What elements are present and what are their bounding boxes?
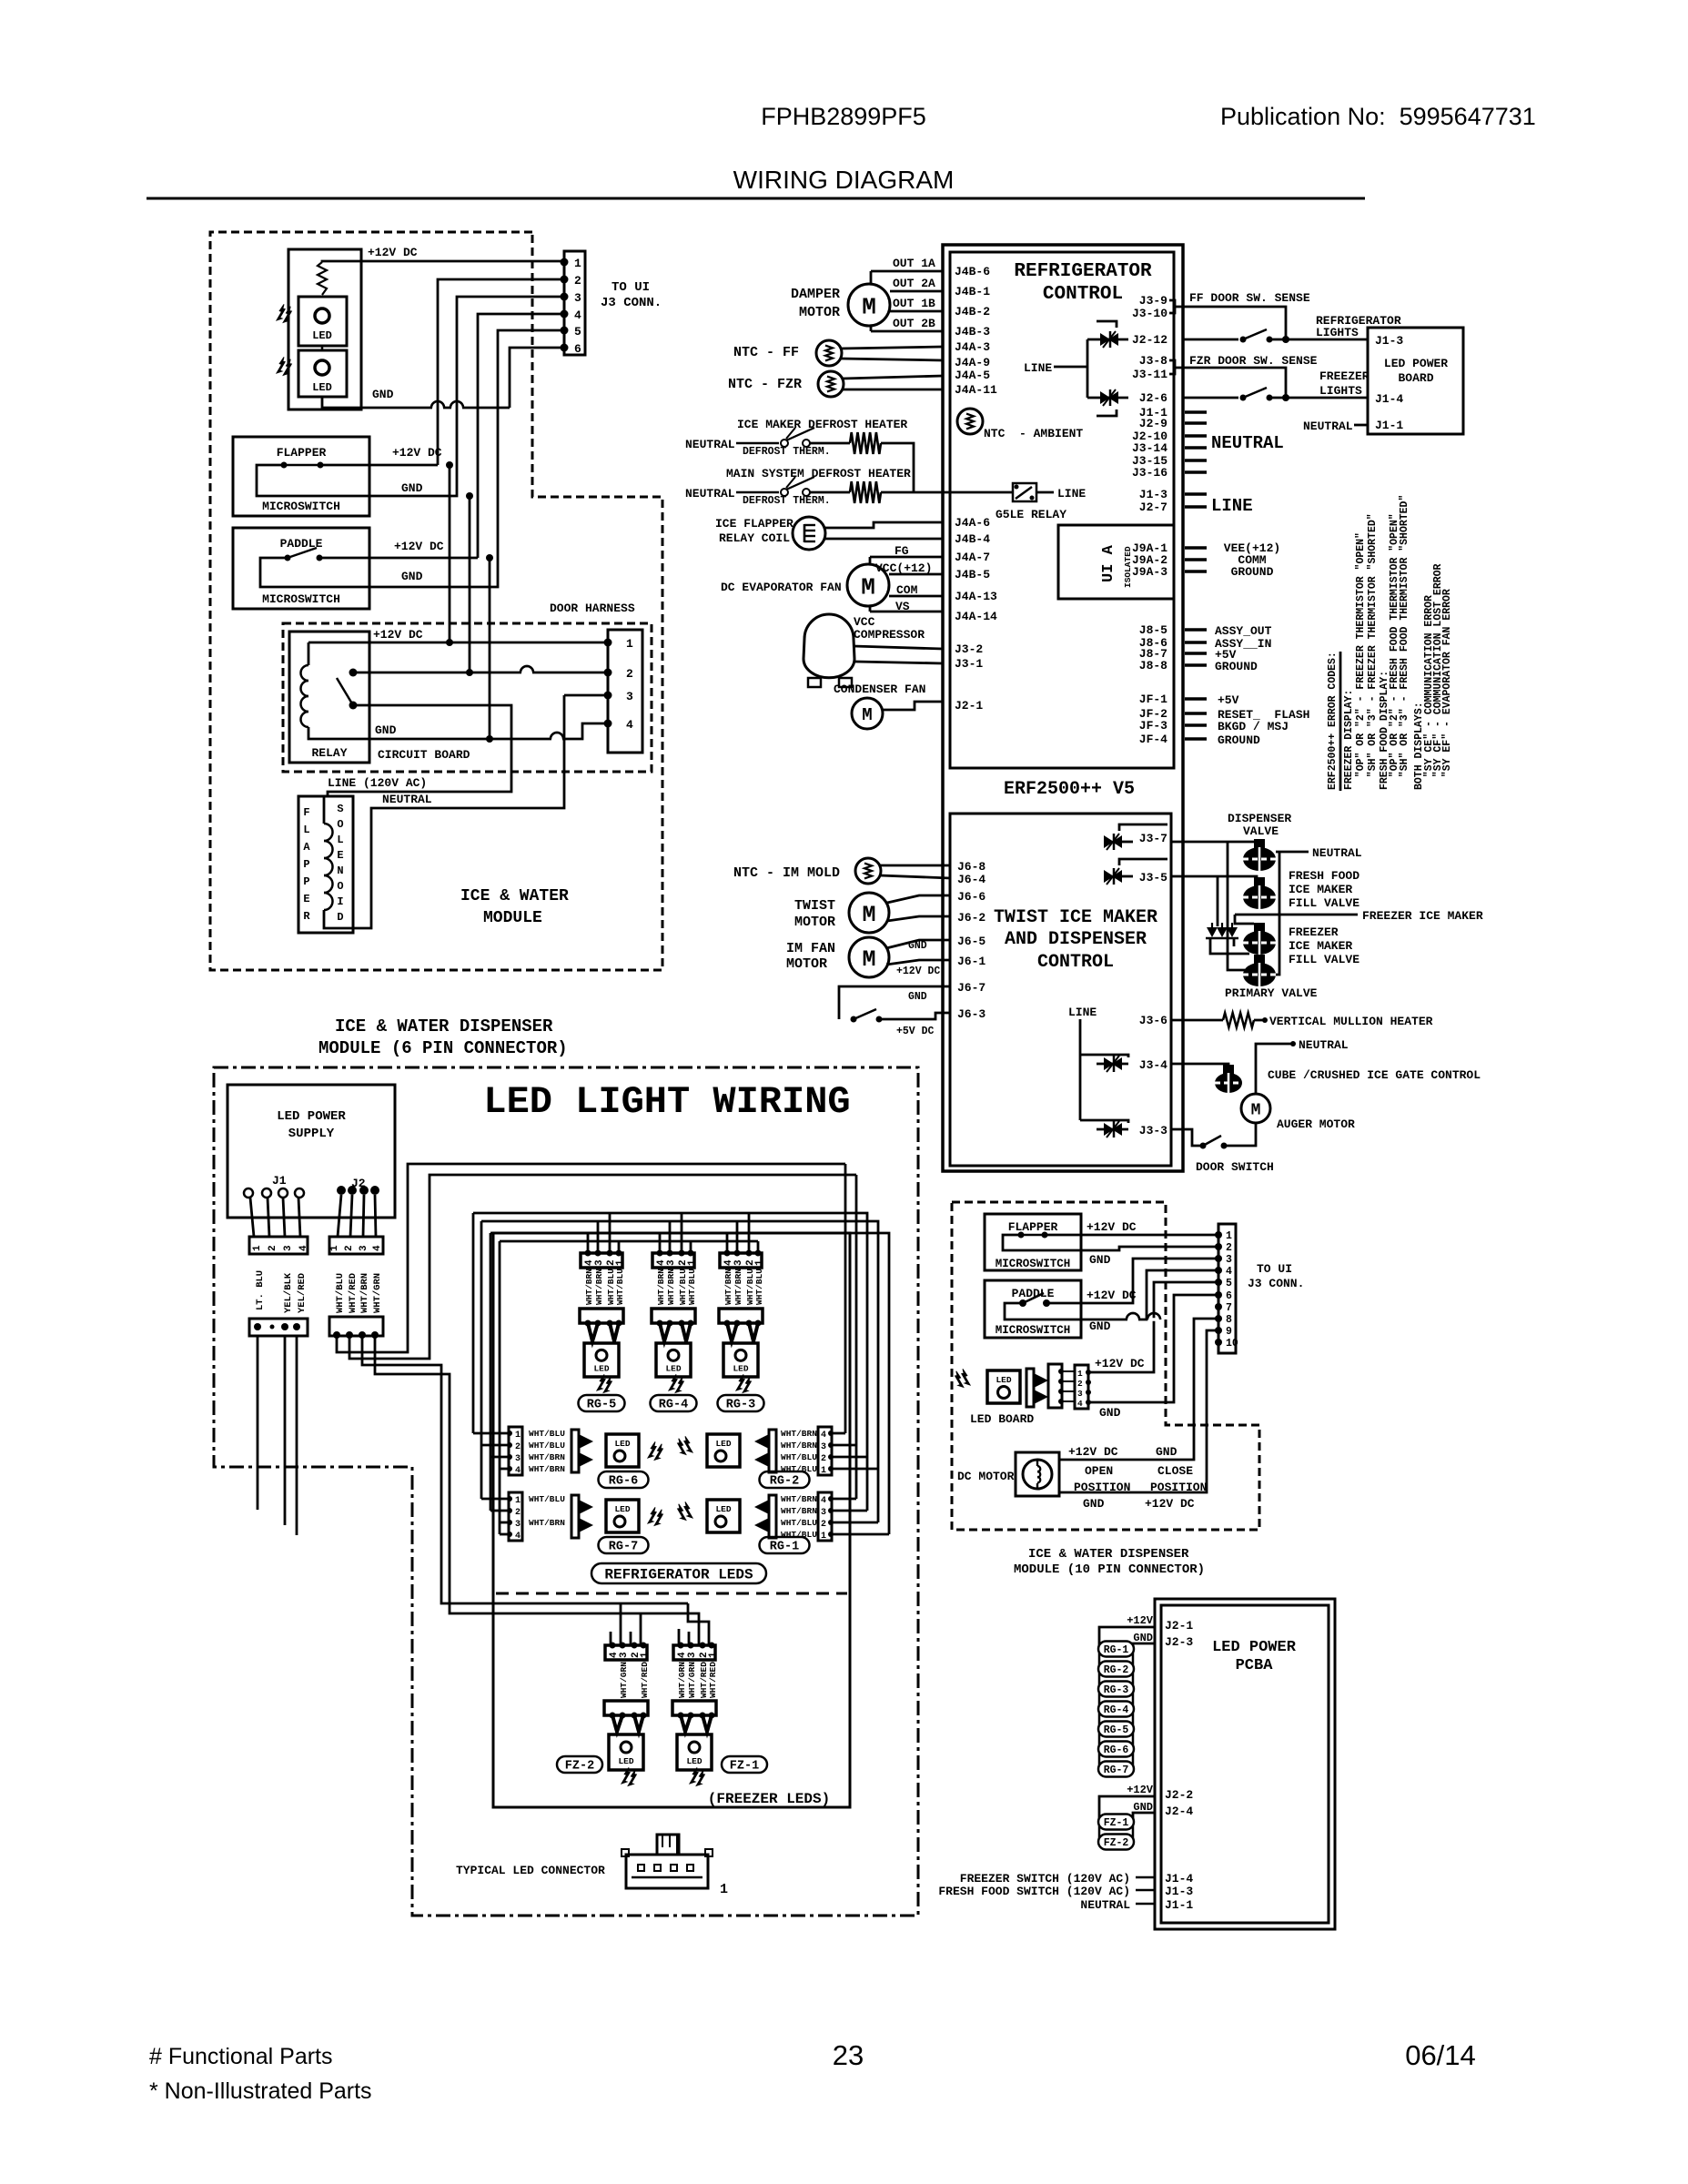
wire led board +12V to pin5: [1088, 1282, 1218, 1372]
stub wire J3-15: [1185, 459, 1207, 462]
svg-text:J3-6: J3-6: [1139, 1014, 1167, 1027]
svg-text:10: 10: [1226, 1338, 1238, 1350]
LED2 light rays: [277, 357, 285, 373]
stub wire JF-3: [1185, 723, 1207, 727]
riser wires RG-3: [726, 1233, 729, 1253]
LED connector lower FZ-2: [604, 1701, 648, 1715]
svg-text:1: 1: [754, 1259, 765, 1266]
svg-text:WHT/BRN: WHT/BRN: [656, 1269, 666, 1305]
svg-text:ERF2500++ V5: ERF2500++ V5: [1004, 779, 1135, 800]
svg-text:NEUTRAL: NEUTRAL: [382, 793, 432, 806]
svg-text:LED: LED: [715, 1439, 731, 1449]
svg-text:J6-2: J6-2: [957, 911, 986, 925]
svg-text:J4A-5: J4A-5: [955, 369, 990, 382]
svg-text:3: 3: [666, 1259, 677, 1266]
svg-text:FLAPPER: FLAPPER: [1008, 1220, 1058, 1234]
led bus wire A: [473, 1213, 867, 1511]
10pin pin 5: [1215, 1279, 1222, 1286]
svg-text:PCBA: PCBA: [1236, 1657, 1274, 1674]
svg-text:J2-7: J2-7: [1139, 500, 1167, 514]
diodes: [1207, 927, 1218, 937]
svg-text:IM FAN: IM FAN: [786, 941, 835, 956]
stub wire JF-4: [1185, 737, 1207, 741]
wire solenoid top to line: [324, 795, 328, 798]
defrost heater 2: [850, 481, 881, 503]
svg-text:MOTOR: MOTOR: [786, 956, 827, 972]
wire heater to label: [1254, 1019, 1265, 1022]
wire J3-7 with triac: [1121, 841, 1133, 844]
stack oval RG-2: [1098, 1662, 1134, 1677]
stack oval RG-6: [1098, 1742, 1134, 1757]
NTC ambient thermistor: [957, 409, 983, 434]
svg-text:WHT/BRN: WHT/BRN: [781, 1494, 817, 1504]
svg-text:MODULE (6 PIN CONNECTOR): MODULE (6 PIN CONNECTOR): [318, 1038, 568, 1058]
light rays FZ-2: [622, 1767, 630, 1784]
svg-text:VCC(+12): VCC(+12): [875, 561, 932, 575]
svg-text:GROUND: GROUND: [1215, 660, 1258, 673]
wire +12V to harness pin1: [308, 642, 608, 644]
wire dc motor close: [1059, 1330, 1218, 1492]
svg-text:NEUTRAL: NEUTRAL: [1080, 1898, 1130, 1912]
svg-text:WHT/RED: WHT/RED: [348, 1273, 359, 1313]
svg-text:GND: GND: [401, 481, 423, 495]
svg-text:J4A-7: J4A-7: [955, 551, 990, 564]
svg-text:WHT/BRN: WHT/BRN: [529, 1518, 565, 1528]
J1 lower connector box: [249, 1319, 308, 1336]
hanging wire YEL/BLK: [284, 1336, 287, 1525]
pin strip RG-7: [509, 1492, 522, 1541]
LED module RG-4: [656, 1343, 691, 1377]
svg-text:RELAY COIL: RELAY COIL: [719, 531, 790, 545]
svg-text:J6-6: J6-6: [957, 890, 986, 904]
contact triangles RG-5: [588, 1323, 598, 1341]
triac refrigerator lights: [1087, 339, 1128, 341]
wire J3-4 with triac: [1080, 1055, 1128, 1057]
wire GND LED board to pin6: [322, 397, 510, 408]
svg-text:+12V DC: +12V DC: [1095, 1357, 1145, 1370]
svg-text:7: 7: [1226, 1302, 1232, 1314]
svg-text:RG-3: RG-3: [726, 1399, 755, 1412]
svg-text:+12V DC: +12V DC: [1087, 1289, 1137, 1302]
svg-text:+5V: +5V: [1218, 693, 1239, 707]
pin 5 of J3 connector: [561, 327, 569, 335]
light rays FZ-1: [690, 1767, 698, 1784]
svg-text:06/14: 06/14: [1405, 2039, 1476, 2071]
designator oval RG-3: [718, 1395, 764, 1411]
svg-text:"SY EF" - EVAPORATOR FAN ERROR: "SY EF" - EVAPORATOR FAN ERROR: [1441, 589, 1453, 790]
svg-text:2: 2: [821, 1454, 826, 1464]
svg-text:WHT/GRN: WHT/GRN: [687, 1662, 697, 1698]
svg-text:2: 2: [344, 1245, 355, 1251]
door harness connector (4 pin): [608, 630, 642, 753]
svg-text:1: 1: [1077, 1369, 1083, 1379]
J2 connector box: [329, 1237, 383, 1254]
svg-text:DOOR SWITCH: DOOR SWITCH: [1196, 1160, 1274, 1174]
wire condenser fan: [883, 702, 943, 710]
10pin pin 8: [1215, 1315, 1222, 1322]
svg-text:LINE: LINE: [1211, 496, 1253, 516]
svg-text:GND: GND: [1156, 1445, 1178, 1459]
svg-text:M: M: [862, 946, 875, 973]
svg-text:NTC - IM MOLD: NTC - IM MOLD: [733, 865, 840, 881]
svg-text:M: M: [862, 902, 875, 928]
wire valve neutral bus: [1276, 851, 1309, 854]
auger motor M6: [1241, 1094, 1270, 1123]
freezer light switch: [1240, 395, 1247, 401]
LED board light rays: [962, 1369, 970, 1385]
svg-text:OUT 1A: OUT 1A: [893, 257, 935, 270]
defrost thermostat 2: [781, 489, 788, 496]
svg-text:J2-6: J2-6: [1139, 391, 1167, 405]
diode bus vertical: [1217, 876, 1219, 926]
svg-text:WHT/GRN: WHT/GRN: [372, 1273, 383, 1313]
J1 pigtail wires: [250, 1198, 254, 1237]
svg-text:OUT 1B: OUT 1B: [893, 297, 935, 310]
svg-text:2: 2: [821, 1520, 826, 1530]
pin 3 of J3 connector: [561, 293, 569, 301]
riser wires RG-5: [587, 1233, 590, 1253]
svg-text:TO UI: TO UI: [612, 280, 650, 295]
svg-text:NEUTRAL: NEUTRAL: [1211, 433, 1284, 453]
svg-text:J4A-13: J4A-13: [955, 590, 997, 603]
wire LINE to selector: [1054, 366, 1087, 369]
svg-text:J4B-1: J4B-1: [955, 285, 990, 298]
svg-text:J3-14: J3-14: [1132, 441, 1167, 455]
svg-text:VALVE: VALVE: [1243, 824, 1279, 838]
J1 pin circles: [244, 1188, 253, 1198]
svg-text:J4B-2: J4B-2: [955, 305, 990, 318]
svg-text:2: 2: [626, 667, 633, 681]
svg-text:RELAY: RELAY: [311, 746, 347, 760]
stack oval FZ-1: [1098, 1815, 1134, 1830]
compressor body: [804, 614, 854, 678]
svg-text:FREEZER: FREEZER: [1319, 369, 1370, 383]
svg-text:YEL/RED: YEL/RED: [297, 1273, 308, 1313]
svg-text:LINE: LINE: [1057, 487, 1086, 500]
light rays RG-7: [648, 1507, 656, 1523]
LED module RG-1: [707, 1500, 740, 1532]
svg-text:+12V DC: +12V DC: [368, 246, 418, 259]
svg-text:6: 6: [574, 342, 581, 356]
pin 4 of J3 connector: [561, 310, 569, 318]
svg-text:9: 9: [1226, 1326, 1232, 1338]
svg-text:J6-3: J6-3: [957, 1007, 986, 1021]
dashed enclosure ice & water dispenser module 10-pin: [952, 1202, 1259, 1530]
svg-text:LED POWER: LED POWER: [1384, 357, 1448, 370]
stack oval RG-4: [1098, 1702, 1134, 1717]
paddle internal GND loop wire: [260, 558, 369, 587]
svg-text:WHT/BRN: WHT/BRN: [529, 1452, 565, 1462]
svg-text:RG-2: RG-2: [770, 1475, 799, 1489]
svg-text:LED: LED: [614, 1504, 630, 1514]
stub wire J9A-1: [1185, 546, 1207, 550]
svg-text:WHT/RED: WHT/RED: [708, 1662, 718, 1698]
RG-1 pin stub wires: [832, 1498, 856, 1501]
svg-text:WHT/BRN: WHT/BRN: [781, 1429, 817, 1439]
10pin pin 6: [1215, 1291, 1222, 1299]
freezer fill valve V3: [1254, 923, 1265, 932]
designator oval FZ-2: [557, 1756, 602, 1773]
svg-text:WHT/RED: WHT/RED: [640, 1662, 650, 1698]
relay coil leads: [308, 642, 310, 665]
wire switch to J6-3: [879, 1013, 950, 1019]
svg-text:TO UI: TO UI: [1257, 1262, 1292, 1276]
twist ice maker control box: [950, 814, 1171, 1166]
svg-text:LED LIGHT WIRING: LED LIGHT WIRING: [483, 1080, 850, 1124]
svg-text:MODULE: MODULE: [483, 909, 542, 927]
wires compressor: [854, 646, 943, 649]
svg-text:WHT/BRN: WHT/BRN: [781, 1441, 817, 1451]
ice flapper relay coil symbol: [793, 517, 825, 550]
svg-text:M: M: [1251, 1101, 1261, 1119]
svg-text:+12V DC: +12V DC: [1087, 1220, 1137, 1234]
svg-text:3: 3: [821, 1442, 826, 1452]
svg-text:+12V: +12V: [1127, 1784, 1154, 1796]
wire +12V to pin1: [322, 261, 564, 262]
G5LE relay box: [1013, 483, 1036, 501]
svg-text:J3 CONN.: J3 CONN.: [601, 296, 662, 310]
svg-text:J2-4: J2-4: [1165, 1805, 1193, 1818]
svg-text:Publication No: 5995647731: Publication No: 5995647731: [1220, 103, 1536, 130]
svg-text:LINE: LINE: [1024, 361, 1052, 375]
svg-text:GND: GND: [372, 388, 394, 401]
10pin pin 2: [1215, 1243, 1222, 1250]
svg-text:FZ-1: FZ-1: [730, 1760, 759, 1774]
svg-text:2: 2: [515, 1508, 521, 1518]
svg-text:WHT/BLU: WHT/BLU: [335, 1273, 346, 1313]
dash-dot enclosure LED LIGHT WIRING: [214, 1067, 918, 1916]
svg-text:LED: LED: [593, 1363, 609, 1373]
svg-text:LINE: LINE: [1068, 1006, 1097, 1019]
svg-text:DEFROST THERM.: DEFROST THERM.: [743, 495, 831, 507]
svg-text:NTC - AMBIENT: NTC - AMBIENT: [984, 427, 1083, 440]
svg-text:MICROSWITCH: MICROSWITCH: [262, 500, 340, 513]
wire FREEZER ICE MAKER: [1235, 914, 1358, 916]
wire J3-3 with triac: [1080, 1120, 1128, 1123]
wire FZR door sense: [1175, 368, 1286, 398]
dispenser valve V1: [1254, 839, 1265, 848]
svg-text:J4B-4: J4B-4: [955, 532, 990, 546]
svg-text:A: A: [303, 841, 310, 854]
relay box: [289, 632, 369, 763]
refrigerator light switch: [1240, 337, 1247, 343]
svg-text:J4A-14: J4A-14: [955, 610, 997, 623]
im fan motor M5: [849, 937, 889, 977]
svg-text:LED: LED: [614, 1439, 630, 1449]
door harness pin 2: [604, 669, 612, 677]
svg-text:ICE & WATER: ICE & WATER: [460, 887, 569, 905]
svg-text:4: 4: [574, 308, 581, 322]
triac freezer lights: [1087, 397, 1128, 399]
svg-text:LED: LED: [618, 1756, 633, 1766]
svg-text:WHT/BRN: WHT/BRN: [359, 1273, 370, 1313]
svg-text:3: 3: [574, 291, 581, 305]
ice gate valve: [1223, 1065, 1234, 1074]
svg-text:DISPENSER: DISPENSER: [1228, 812, 1291, 825]
contact block RG-7: [571, 1495, 579, 1538]
svg-text:WHT/BLU: WHT/BLU: [529, 1429, 565, 1439]
svg-text:J3-7: J3-7: [1139, 832, 1167, 845]
svg-text:J2-3: J2-3: [1165, 1635, 1193, 1649]
svg-text:CONTROL: CONTROL: [1043, 284, 1123, 305]
svg-text:WHT/BRN: WHT/BRN: [781, 1506, 817, 1516]
svg-text:DOOR HARNESS: DOOR HARNESS: [550, 602, 635, 615]
svg-text:J4A-6: J4A-6: [955, 516, 990, 530]
door switch contacts: [1200, 1143, 1207, 1149]
riser wires RG-4: [659, 1233, 662, 1253]
svg-text:FREEZER: FREEZER: [1289, 925, 1339, 939]
led power pcba inner box: [1161, 1605, 1329, 1923]
svg-text:WHT/BLU: WHT/BLU: [781, 1464, 817, 1474]
contact triangles FZ-2: [612, 1715, 622, 1732]
wire flapper GND loop: [1003, 1235, 1218, 1250]
svg-text:J6-5: J6-5: [957, 935, 986, 948]
svg-text:RG-1: RG-1: [770, 1541, 799, 1554]
wire G5LE to LINE: [1036, 491, 1054, 494]
svg-text:+5V DC: +5V DC: [896, 1026, 935, 1037]
J2 pigtail wires: [338, 1195, 341, 1237]
wire paddle +12V: [319, 557, 478, 560]
fresh food fill valve V2: [1254, 877, 1265, 886]
svg-text:J1-3: J1-3: [1165, 1885, 1193, 1898]
dc motor box: [1016, 1452, 1059, 1496]
typical led connector drawing: [626, 1855, 708, 1888]
error codes underline: [1339, 652, 1342, 791]
svg-text:MODULE (10 PIN CONNECTOR): MODULE (10 PIN CONNECTOR): [1014, 1562, 1205, 1577]
svg-text:1: 1: [821, 1466, 826, 1476]
svg-text:BOARD: BOARD: [1398, 371, 1433, 385]
svg-text:J4A-9: J4A-9: [955, 356, 990, 369]
svg-text:L: L: [303, 824, 309, 836]
wires im fan motor: [886, 940, 950, 948]
wire rail to door harness GND: [489, 558, 491, 739]
rg stack side rails: [1098, 1649, 1101, 1769]
svg-text:J6-4: J6-4: [957, 873, 986, 886]
designator oval RG-1: [760, 1537, 810, 1553]
pin strip RG-2: [818, 1427, 832, 1475]
wire J3-5 with triac: [1121, 875, 1133, 878]
svg-text:COM: COM: [896, 583, 918, 597]
stub wire J8-7: [1185, 652, 1207, 655]
svg-text:J2-1: J2-1: [1165, 1619, 1193, 1633]
svg-text:+12V DC: +12V DC: [392, 446, 442, 460]
svg-text:DC MOTOR: DC MOTOR: [957, 1470, 1015, 1483]
svg-text:LED BOARD: LED BOARD: [970, 1412, 1034, 1426]
flapper microswitch box (10pin): [985, 1214, 1081, 1270]
svg-text:LED: LED: [996, 1375, 1011, 1385]
svg-text:MAIN SYSTEM DEFROST HEATER: MAIN SYSTEM DEFROST HEATER: [726, 467, 911, 480]
stub wire J2-10: [1185, 434, 1207, 438]
svg-text:M: M: [862, 705, 872, 725]
wire flapper +12V to pin1: [1045, 1234, 1218, 1237]
fz stack side rails: [1098, 1822, 1101, 1842]
svg-text:MICROSWITCH: MICROSWITCH: [996, 1258, 1071, 1270]
svg-text:NEUTRAL: NEUTRAL: [685, 487, 735, 500]
svg-text:AUGER MOTOR: AUGER MOTOR: [1277, 1117, 1355, 1131]
svg-text:R: R: [303, 910, 310, 923]
svg-text:NEUTRAL: NEUTRAL: [1303, 420, 1353, 433]
svg-text:1: 1: [626, 637, 633, 651]
svg-text:(FREEZER LEDS): (FREEZER LEDS): [708, 1791, 830, 1807]
stub wire J9A-3: [1185, 570, 1207, 573]
svg-text:CLOSE: CLOSE: [1157, 1464, 1193, 1478]
wire hump crossing 1: [431, 401, 444, 408]
svg-text:J2-9: J2-9: [1139, 417, 1167, 430]
svg-text:WHT/BRN: WHT/BRN: [666, 1269, 676, 1305]
svg-text:ICE & WATER DISPENSER: ICE & WATER DISPENSER: [335, 1016, 553, 1036]
svg-text:4: 4: [626, 718, 633, 732]
svg-text:WHT/BRN: WHT/BRN: [529, 1464, 565, 1474]
svg-text:+12V DC: +12V DC: [1068, 1445, 1118, 1459]
svg-text:NEUTRAL: NEUTRAL: [1299, 1038, 1349, 1052]
defrost thermostat 1: [781, 440, 788, 447]
svg-text:CIRCUIT BOARD: CIRCUIT BOARD: [378, 748, 470, 762]
svg-text:1: 1: [687, 1259, 698, 1266]
svg-text:MOTOR: MOTOR: [799, 305, 840, 320]
thermistor NTC-FZR: [818, 371, 844, 397]
paddle microswitch box: [233, 528, 369, 609]
svg-text:3: 3: [733, 1259, 744, 1266]
svg-text:J4B-6: J4B-6: [955, 265, 990, 278]
LED module RG-2: [707, 1434, 740, 1467]
wires NTC IM mold: [880, 864, 950, 867]
LED module FZ-2: [609, 1734, 643, 1770]
svg-text:1: 1: [1226, 1230, 1232, 1242]
fz stack +12V wire: [1099, 1796, 1155, 1822]
svg-text:LT. BLU: LT. BLU: [255, 1270, 266, 1310]
svg-text:J3-4: J3-4: [1139, 1058, 1167, 1072]
flapper solenoid box: [298, 796, 353, 933]
wire rail to door harness pin2: [469, 496, 471, 672]
LED2 lens: [315, 360, 329, 375]
svg-text:OUT 2B: OUT 2B: [893, 317, 935, 330]
svg-text:RG-2: RG-2: [1104, 1664, 1129, 1676]
svg-text:FLAPPER: FLAPPER: [277, 446, 327, 460]
10pin pin 4: [1215, 1267, 1222, 1274]
svg-text:4: 4: [1226, 1266, 1232, 1278]
svg-text:J3-1: J3-1: [955, 657, 983, 671]
svg-text:ICE & WATER DISPENSER: ICE & WATER DISPENSER: [1028, 1547, 1189, 1562]
svg-text:J6-1: J6-1: [957, 955, 986, 968]
svg-text:WHT/BLU: WHT/BLU: [781, 1530, 817, 1540]
light rays RG-4: [669, 1374, 677, 1390]
svg-text:LED: LED: [312, 381, 332, 394]
svg-text:FRESH FOOD: FRESH FOOD: [1289, 869, 1359, 883]
wires evaporator fan: [869, 557, 872, 612]
wire fresh food switch: [1136, 1889, 1155, 1892]
svg-text:ICE MAKER: ICE MAKER: [1289, 939, 1352, 953]
svg-text:J4B-3: J4B-3: [955, 325, 990, 339]
svg-text:J3-3: J3-3: [1139, 1124, 1167, 1137]
svg-text:E: E: [303, 893, 309, 905]
LED module RG-5: [584, 1343, 619, 1377]
svg-text:FG: FG: [895, 544, 909, 558]
svg-text:FZ-2: FZ-2: [565, 1760, 594, 1774]
wire J2-12 refrigerator lights: [1183, 339, 1238, 341]
wire relay contact to harness pin2: [353, 672, 608, 674]
svg-text:FREEZER DISPLAY:: FREEZER DISPLAY:: [1343, 690, 1355, 790]
wires NTC-FZR: [843, 376, 943, 379]
svg-text:J1-4: J1-4: [1375, 392, 1403, 406]
svg-text:ERF2500++ ERROR CODES:: ERF2500++ ERROR CODES:: [1327, 652, 1339, 790]
defrost heater 1: [850, 432, 881, 454]
10pin pin 10: [1215, 1339, 1222, 1346]
svg-text:GND: GND: [1089, 1253, 1111, 1267]
svg-text:WHT/BRN: WHT/BRN: [594, 1269, 604, 1305]
relay coil: [301, 665, 309, 681]
svg-text:S: S: [337, 803, 343, 815]
svg-text:J1-1: J1-1: [1165, 1898, 1193, 1912]
